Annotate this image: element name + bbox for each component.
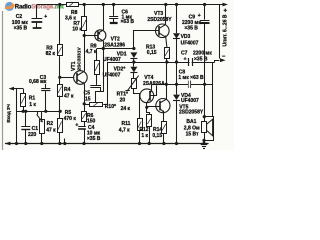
svg-text:Uпит. 6...26 В: Uпит. 6...26 В bbox=[223, 14, 229, 46]
svg-text:×35 В: ×35 В bbox=[184, 26, 198, 32]
svg-text:UF4007: UF4007 bbox=[103, 72, 121, 78]
resistor R8 bbox=[65, 3, 79, 22]
capacitor C4 bbox=[75, 121, 100, 143]
transistor VT1 bbox=[71, 46, 87, 84]
junction rail-C4 bbox=[82, 142, 85, 145]
svg-text:1 к: 1 к bbox=[141, 133, 148, 139]
svg-text:UF4007: UF4007 bbox=[181, 40, 199, 46]
capacitor C5 bbox=[84, 74, 101, 102]
svg-text:×35 В: ×35 В bbox=[87, 136, 101, 142]
wire VT3 collector to rail bbox=[165, 5, 167, 25]
wire VD1-VD2 bbox=[133, 58, 135, 66]
speaker BA1 bbox=[184, 117, 213, 144]
wire VT1 emitter down bbox=[84, 84, 86, 104]
svg-text:0,15: 0,15 bbox=[152, 133, 162, 139]
wire VT1 emitter node bbox=[83, 102, 86, 105]
wire feedback row y111.3 bbox=[17, 111, 61, 113]
node VT1 base bbox=[58, 76, 61, 79]
svg-text:20: 20 bbox=[120, 97, 126, 103]
wire right column from A down bbox=[212, 62, 214, 117]
input terminal arrow bbox=[6, 87, 23, 123]
svg-text:R1: R1 bbox=[29, 96, 36, 102]
junction rail-VD3 bbox=[175, 3, 178, 6]
transistor VT2 bbox=[95, 30, 126, 49]
junction rail stub bbox=[63, 142, 66, 145]
junction rail-R12 bbox=[148, 142, 151, 145]
top rail bbox=[37, 4, 67, 6]
wire A bias row y62 bbox=[107, 62, 214, 64]
wire VT4 collector to node bbox=[146, 103, 148, 108]
wire node to VT5 base bbox=[147, 106, 160, 108]
wire VT3 emitter to R13 bbox=[166, 37, 167, 47]
svg-text:+: + bbox=[75, 122, 78, 128]
top rail + terminal arrow bbox=[223, 3, 229, 7]
svg-text:470 к: 470 к bbox=[64, 116, 77, 122]
svg-text:2SD2058Y: 2SD2058Y bbox=[179, 109, 204, 115]
capacitor C8 bbox=[178, 69, 204, 88]
wire VT2 collector down bbox=[103, 41, 105, 49]
resistor R9 bbox=[86, 44, 100, 75]
wire VD3 column down through B bbox=[176, 62, 178, 95]
svg-text:+: + bbox=[184, 56, 187, 62]
svg-text:×35 В: ×35 В bbox=[194, 57, 208, 63]
capacitor C1 bbox=[21, 111, 38, 143]
junction rail-C6 bbox=[112, 3, 115, 6]
right bus down to minus bbox=[219, 5, 221, 59]
svg-text:+: + bbox=[44, 14, 47, 20]
svg-text:R2: R2 bbox=[47, 121, 54, 127]
wire R7 node down to VT1 collector bbox=[84, 36, 86, 72]
capacitor C3 bbox=[29, 75, 50, 111]
junction rail-R7 bbox=[83, 3, 86, 6]
svg-text:R12: R12 bbox=[139, 127, 148, 133]
svg-text:4,7 к: 4,7 к bbox=[119, 127, 130, 133]
transistor VT4 bbox=[140, 75, 165, 103]
wire VD node up right to VT3 base bbox=[134, 31, 159, 49]
svg-text:220: 220 bbox=[28, 132, 37, 138]
diode VD3 bbox=[173, 5, 199, 63]
resistor R4 bbox=[58, 85, 74, 112]
resistor R7 bbox=[72, 5, 86, 36]
ground symbol bbox=[201, 145, 208, 149]
resistor R5 bbox=[58, 110, 77, 143]
svg-text:2SA926A: 2SA926A bbox=[143, 81, 165, 87]
svg-text:15: 15 bbox=[85, 96, 91, 102]
svg-text:VT1: VT1 bbox=[71, 61, 77, 71]
junction rail-VT3 collector bbox=[164, 3, 167, 6]
svg-text:2SD2058Y: 2SD2058Y bbox=[147, 17, 172, 23]
wire VD2 to RT1 bbox=[133, 73, 135, 78]
resistor R1 bbox=[21, 89, 37, 112]
resistor R11 bbox=[119, 119, 143, 144]
svg-text:×63 В: ×63 В bbox=[121, 19, 135, 25]
wire speaker loop bbox=[205, 117, 214, 141]
capacitor C7 bbox=[181, 51, 212, 67]
svg-text:+: + bbox=[198, 13, 201, 19]
transistor VT5 bbox=[156, 99, 204, 116]
junction rail-speaker bbox=[202, 142, 205, 145]
svg-text:R14: R14 bbox=[153, 127, 162, 133]
svg-text:R11: R11 bbox=[122, 121, 131, 127]
scan page edge bbox=[2, 11, 4, 150]
junction rail-VT2 emitter bbox=[102, 3, 105, 6]
svg-text:15 Вт: 15 Вт bbox=[186, 132, 199, 138]
junction rail-R5 bbox=[58, 142, 61, 145]
diode VD4 bbox=[173, 93, 199, 143]
transistor VT3 bbox=[147, 11, 172, 37]
svg-text:0,15: 0,15 bbox=[147, 50, 157, 56]
resistor R10 bbox=[84, 103, 130, 113]
capacitor C9 bbox=[182, 5, 210, 85]
wire collector node to VD1 bbox=[97, 48, 134, 50]
resistor R12 bbox=[139, 108, 151, 144]
svg-text:82 к: 82 к bbox=[46, 51, 56, 57]
diode VD1 bbox=[103, 51, 137, 63]
svg-text:C1: C1 bbox=[32, 126, 39, 132]
junction rail-R3 bbox=[58, 3, 61, 6]
wire VT2 emitter to rail bbox=[103, 5, 105, 31]
svg-text:10 к: 10 к bbox=[72, 26, 82, 32]
wire C9 column to speaker node bbox=[204, 84, 206, 116]
logo icon bbox=[5, 2, 16, 11]
svg-text:VD3: VD3 bbox=[181, 34, 191, 40]
wire vertical VT5 collector column bbox=[166, 62, 168, 100]
wire VT1 base bbox=[60, 77, 74, 79]
resistor R13 bbox=[146, 44, 170, 62]
svg-text:24 к: 24 к bbox=[121, 106, 131, 112]
svg-text:UF4007: UF4007 bbox=[181, 98, 199, 104]
resistor R14 bbox=[152, 112, 166, 143]
junction rail-VD4 bbox=[175, 142, 178, 145]
svg-text:×35 В: ×35 В bbox=[14, 25, 28, 31]
svg-text:150: 150 bbox=[87, 119, 96, 125]
input shield line bbox=[16, 89, 18, 144]
wire B output row y84.3 bbox=[152, 84, 213, 86]
svg-text:R10*: R10* bbox=[105, 104, 116, 110]
junction rail-R2 bbox=[40, 142, 43, 145]
trimmer R2 bbox=[37, 111, 57, 143]
svg-text:47 к: 47 к bbox=[64, 94, 74, 100]
junction rail-C1 bbox=[24, 142, 27, 145]
ground rail left arrow terminal bbox=[5, 142, 11, 146]
svg-text:BA1: BA1 bbox=[186, 119, 196, 125]
svg-text:2SA1286: 2SA1286 bbox=[104, 42, 125, 48]
junction rail-R14 bbox=[162, 142, 165, 145]
junction rail-R11 bbox=[138, 142, 141, 145]
wire RT1 to R11 column bbox=[134, 89, 140, 119]
svg-text:R4: R4 bbox=[64, 87, 71, 93]
svg-text:1 к: 1 к bbox=[29, 102, 36, 108]
junction rail-C9 bbox=[203, 3, 206, 6]
resistor R6 bbox=[82, 104, 96, 125]
svg-text:1 мк ×63 В: 1 мк ×63 В bbox=[178, 75, 204, 81]
bottom ground rail bbox=[5, 143, 209, 145]
resistor R3 bbox=[46, 5, 63, 85]
junction rail-input shield bbox=[15, 142, 18, 145]
svg-text:R5: R5 bbox=[65, 110, 72, 116]
svg-text:+: + bbox=[224, 9, 228, 15]
node R7/VT2 base bbox=[83, 34, 86, 37]
thermistor RT1 bbox=[117, 76, 139, 104]
svg-text:−: − bbox=[222, 54, 226, 60]
svg-text:4,7 к: 4,7 к bbox=[86, 49, 97, 55]
svg-text:2,8 Ом: 2,8 Ом bbox=[184, 125, 200, 131]
capacitor C6 bbox=[109, 5, 134, 26]
wire VT2 collector node to C5 bottom bbox=[101, 49, 104, 92]
svg-text:2SC3331V: 2SC3331V bbox=[76, 46, 82, 70]
diode VD2 bbox=[103, 67, 138, 79]
svg-text:47 к: 47 к bbox=[46, 128, 56, 134]
svg-text:Вход 3Ч: Вход 3Ч bbox=[6, 104, 11, 122]
capacitor C2 bbox=[12, 5, 47, 32]
svg-text:0,68 мк: 0,68 мк bbox=[29, 79, 47, 85]
